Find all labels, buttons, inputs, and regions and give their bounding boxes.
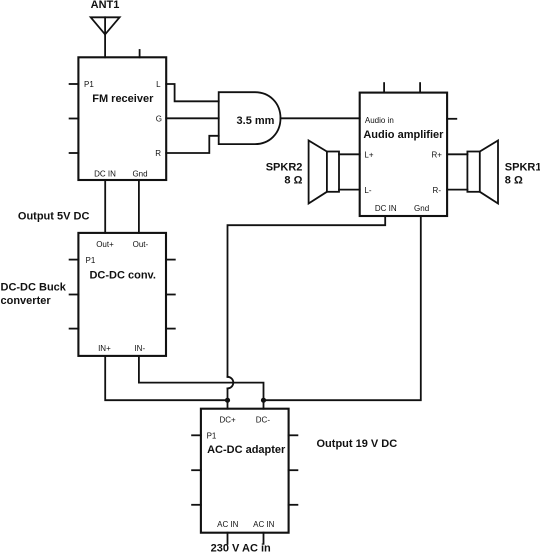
svg-text:DC IN: DC IN [375, 204, 397, 213]
svg-text:R+: R+ [431, 150, 442, 159]
wire amp DC IN left and down with hop [228, 216, 386, 409]
svg-text:230 V AC in: 230 V AC in [211, 543, 271, 553]
block FM receiver U1 [78, 57, 166, 180]
pin 6 (AC-DC right) [289, 504, 298, 506]
svg-text:SPKR1: SPKR1 [505, 162, 540, 174]
wire G to 3.5mm jack [166, 117, 219, 119]
wire R+ to SPKR1 [447, 153, 467, 155]
wire L+ to SPKR2 [339, 153, 360, 155]
svg-text:AC-DC adapter: AC-DC adapter [207, 444, 286, 456]
wire IN- down right to DC- node [139, 356, 264, 400]
speaker SPKR1 [467, 141, 498, 204]
svg-text:Gnd: Gnd [414, 204, 429, 213]
wire R to 3.5mm jack [166, 136, 219, 153]
label DC-DC Buck converter [1, 282, 67, 307]
wire L to 3.5mm jack [166, 84, 219, 101]
pin 5 (AC-DC right) [289, 469, 298, 471]
svg-text:Audio in: Audio in [365, 116, 394, 125]
block Audio amplifier U2 [360, 93, 447, 216]
svg-text:R-: R- [433, 186, 442, 195]
svg-text:Gnd: Gnd [132, 169, 147, 178]
svg-text:P1: P1 [86, 256, 96, 265]
pin AC IN left stub [227, 533, 229, 544]
wire R- to SPKR1 [447, 189, 467, 191]
pin top 2 (amp unconnected) [419, 83, 421, 93]
antenna ANT1 [91, 17, 120, 57]
wire FM Gnd to Out- [138, 180, 140, 233]
pin right stub (amp unconnected) [447, 118, 456, 120]
svg-text:converter: converter [1, 295, 52, 307]
pin 3 (FM left) [70, 152, 79, 154]
svg-text:L: L [156, 80, 161, 89]
junction node DC- [261, 398, 266, 403]
svg-text:AC IN: AC IN [217, 520, 239, 529]
svg-text:G: G [156, 115, 162, 124]
svg-text:8 Ω: 8 Ω [505, 175, 523, 187]
svg-text:FM receiver: FM receiver [92, 93, 154, 105]
svg-text:L-: L- [364, 186, 371, 195]
pin AC IN right stub [263, 533, 265, 544]
svg-text:Output 19 V DC: Output 19 V DC [317, 438, 398, 450]
svg-text:R: R [155, 149, 161, 158]
pin 4 (DC-DC right) [166, 259, 175, 261]
svg-text:P1: P1 [207, 431, 217, 440]
svg-text:Output 5V DC: Output 5V DC [18, 210, 90, 222]
svg-text:DC+: DC+ [219, 415, 236, 424]
wire jack to Audio in [281, 117, 360, 119]
svg-text:IN+: IN+ [98, 344, 111, 353]
svg-text:8 Ω: 8 Ω [284, 175, 302, 187]
svg-text:ANT1: ANT1 [91, 0, 120, 11]
svg-text:Out+: Out+ [96, 240, 114, 249]
svg-text:IN-: IN- [134, 344, 145, 353]
speaker SPKR2 [309, 141, 339, 204]
pin 3 (AC-DC left) [192, 504, 201, 506]
pin 5 (DC-DC right) [166, 294, 175, 296]
svg-text:AC IN: AC IN [253, 520, 275, 529]
svg-text:Out-: Out- [133, 240, 149, 249]
pin P1 (DC-DC left) [70, 259, 79, 261]
svg-text:Audio amplifier: Audio amplifier [363, 129, 444, 141]
block DC-DC converter U3 [78, 233, 166, 356]
svg-text:DC-DC conv.: DC-DC conv. [89, 269, 155, 281]
svg-text:DC IN: DC IN [94, 169, 116, 178]
wire amp Gnd down and left to DC- node [264, 216, 421, 409]
pin 2 (FM left) [70, 118, 79, 120]
pin 6 (DC-DC right) [166, 328, 175, 330]
svg-text:SPKR2: SPKR2 [266, 162, 303, 174]
junction node DC+ [225, 398, 230, 403]
svg-text:L+: L+ [364, 150, 373, 159]
pin 2 (AC-DC left) [192, 469, 201, 471]
pin P1 (AC-DC left) [192, 434, 201, 436]
connector J1 3.5 mm jack [219, 92, 281, 144]
svg-text:P1: P1 [84, 80, 94, 89]
pin 2 (DC-DC left) [70, 294, 79, 296]
pin top (FM unconnected) [139, 50, 141, 57]
pin 4 (AC-DC right) [289, 434, 298, 436]
block AC-DC adapter U4 [201, 409, 289, 533]
svg-text:DC-: DC- [256, 415, 271, 424]
pin top 1 (amp unconnected) [383, 83, 385, 93]
pin P1 (FM) [70, 83, 79, 85]
svg-text:3.5 mm: 3.5 mm [237, 115, 275, 127]
wire IN+ down and right to DC+ node [105, 356, 227, 400]
svg-text:DC-DC Buck: DC-DC Buck [1, 282, 67, 294]
pin 3 (DC-DC left) [70, 328, 79, 330]
wire FM DC IN to Out+ [104, 180, 106, 233]
wire L- to SPKR2 [339, 189, 360, 191]
